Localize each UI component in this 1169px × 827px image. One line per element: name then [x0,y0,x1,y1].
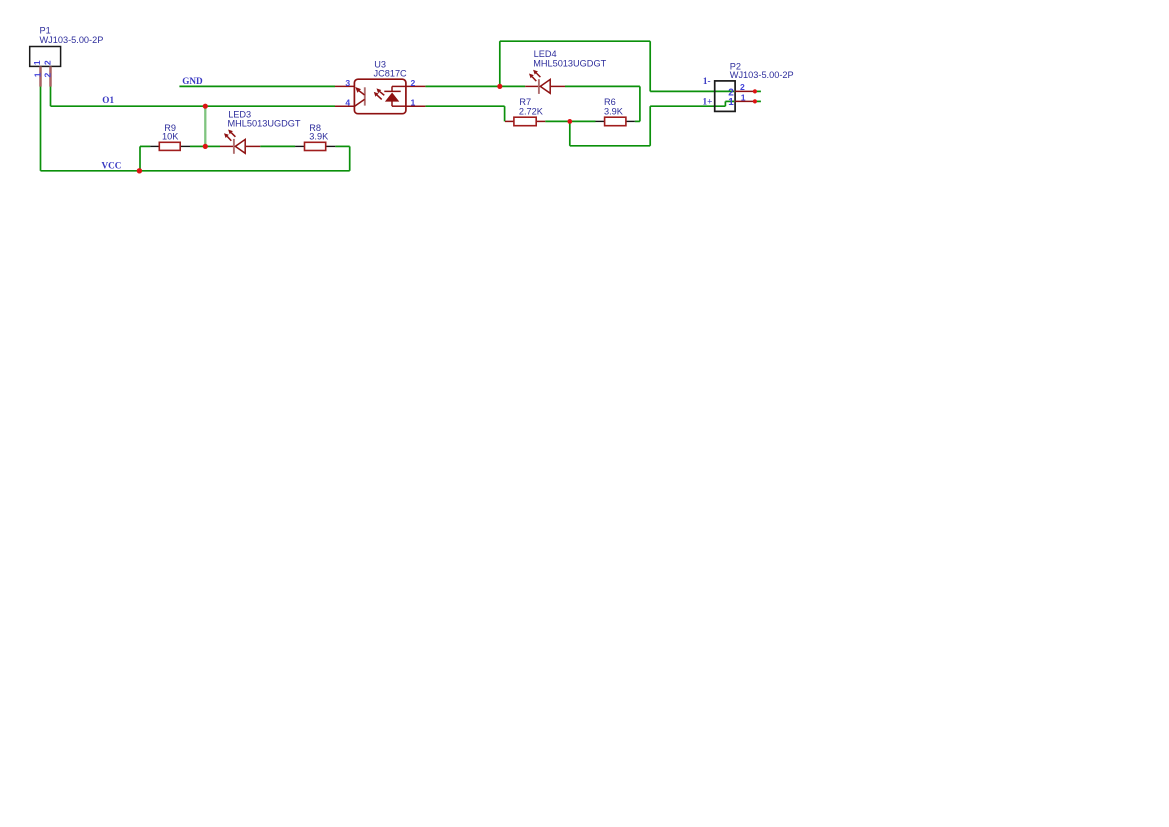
wire node C to R6 left [570,120,596,122]
svg-text:2: 2 [42,73,52,78]
svg-text:1-: 1- [703,76,711,86]
P2 pin2 end dot [753,89,757,93]
wire 1+ net to P2 [650,105,725,107]
wire 1- net to P2 pin2 [650,90,734,92]
U3 pin 2 lead [406,85,426,87]
svg-text:GND: GND [182,76,203,86]
junction node C [567,119,572,124]
svg-text:R6: R6 [604,97,616,107]
wire node B riser to top rail [499,41,501,86]
wire VCC branch riser to R9 [139,146,141,170]
svg-text:1: 1 [741,92,746,102]
LED LED4 [525,70,565,94]
P1 pin 1 stub [39,66,42,86]
P1 pin 2 stub [49,66,52,86]
P2 pin 1 lead [735,100,753,102]
wire P1 pin1 to VCC rail (vertical) [40,86,42,171]
U3 led top link [391,86,393,91]
wire stub P2 pin2 [755,90,761,92]
wire drop to R7 left [504,106,506,121]
svg-text:2: 2 [42,60,52,65]
wire R9 left lead [140,145,150,147]
U3 pin leads [335,86,425,106]
wire node A vertical link (light) [204,106,206,146]
svg-text:R7: R7 [519,97,531,107]
wire node B to LED4 [500,85,525,87]
svg-text:VCC: VCC [102,160,122,170]
connector P1 [30,47,61,67]
wire node C drop [569,121,571,145]
wire O1 net horizontal to U3 pin4 [51,105,336,107]
U3 light arrow 2 [377,95,382,99]
wire LED4 anode to right drop [565,85,640,87]
wire VCC rail (horizontal) [41,170,350,172]
wire node A to LED3 anode lead [205,145,220,147]
svg-text:4: 4 [345,98,350,108]
U3 led cathode bar [384,90,400,92]
resistor R7 [505,117,545,126]
svg-text:1: 1 [32,72,42,77]
U3 pin 3 lead [335,85,354,87]
U3 pin1 inner lead [392,105,406,107]
optocoupler U3 [354,79,406,114]
U3 pin2 inner lead [392,85,406,87]
P2 pin1 end dot [753,99,757,103]
resistor R8 [295,142,335,150]
wire bottom link horizontal [570,145,650,147]
wire R7 right to node C [545,120,570,122]
svg-text:1: 1 [728,97,734,108]
svg-text:2: 2 [740,82,745,92]
svg-text:MHL5013UGDGT: MHL5013UGDGT [533,58,606,68]
connector P2 [715,81,735,112]
wire LED3 cathode to R8 left [260,145,295,147]
svg-text:WJ103-5.00-2P: WJ103-5.00-2P [730,70,794,80]
wire stub P2 pin1 [755,100,761,102]
svg-text:3.9K: 3.9K [604,107,624,117]
U3 phototransistor bar [364,87,366,105]
svg-text:1: 1 [32,60,42,65]
svg-text:2: 2 [411,78,416,88]
U3 emitter diagonal [355,99,365,106]
wire U3 pin1 horizontal [425,105,504,107]
wire top rail horizontal [500,40,650,42]
P2 pin 2 lead [735,90,753,92]
U3 collector arrowhead [355,87,361,93]
svg-text:2.72K: 2.72K [519,107,544,117]
U3 pin 1 lead [406,105,426,107]
U3 led bottom link [391,102,393,107]
wire R6 right lead link [635,120,640,122]
wire bottom link riser [649,106,651,146]
svg-text:3.9K: 3.9K [309,132,329,142]
wire 1+ jog up [724,101,726,106]
svg-text:MHL5013UGDGT: MHL5013UGDGT [228,119,301,129]
wire R9 right to node A [190,145,205,147]
wire P1 pin2 down (vertical) [50,86,52,106]
svg-text:WJ103-5.00-2P: WJ103-5.00-2P [40,35,104,45]
junction node B [497,84,502,89]
resistor R9 [150,142,190,150]
LED LED3 [220,130,260,154]
svg-text:JC817C: JC817C [374,69,408,79]
U3 collector diagonal [359,91,364,95]
svg-text:1: 1 [411,98,416,108]
wire VCC rail right riser to R8 [349,146,351,170]
wire GND net to U3 pin3 [179,85,335,87]
svg-text:O1: O1 [102,95,114,105]
junction node A [203,144,208,149]
wire 1+ jog to P2 pin1 [725,100,734,102]
junction node O1 top [203,104,208,109]
svg-text:10K: 10K [162,132,179,142]
wire U3 pin2 to node B [425,85,499,87]
U3 led triangle [385,93,399,102]
wire drop to R6 right [639,86,641,121]
resistor R6 [596,117,635,126]
U3 pin 4 lead [335,105,354,107]
wire top rail right drop [649,41,651,91]
U3 light arrow 1 [380,92,385,96]
svg-text:1+: 1+ [703,97,713,107]
wire R8 right corner segment [335,145,349,147]
junction node VCC [137,168,142,173]
svg-text:3: 3 [345,78,350,88]
